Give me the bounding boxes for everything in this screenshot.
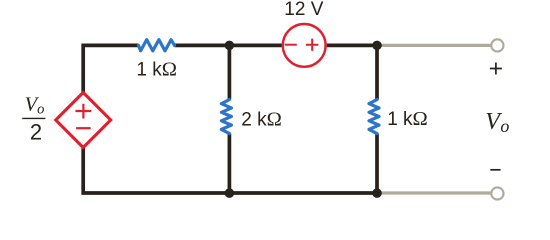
voltage source 12V circle — [283, 24, 326, 67]
junction node top-middle — [225, 41, 235, 51]
wire right vertical lower — [375, 134, 379, 193]
wire middle vertical lower — [228, 134, 232, 193]
svg-text:12 V: 12 V — [284, 0, 323, 20]
svg-text:2: 2 — [30, 120, 42, 145]
junction node bottom-middle — [225, 188, 235, 198]
12V source plus sign — [306, 39, 319, 51]
wire bottom-left corner run — [83, 147, 377, 193]
wire top-left corner run — [83, 45, 138, 93]
12V source minus sign — [285, 44, 297, 46]
junction node bottom-right — [372, 188, 382, 198]
svg-text:1 kΩ: 1 kΩ — [136, 58, 177, 80]
label - output — [490, 169, 500, 171]
svg-text:Vo: Vo — [25, 94, 45, 118]
junction node top-right — [372, 41, 382, 51]
svg-text:Vo: Vo — [485, 109, 509, 136]
terminal bottom — [491, 187, 503, 199]
svg-text:2 kΩ: 2 kΩ — [241, 108, 282, 130]
resistor R1 1 kOhm horizontal — [139, 40, 175, 51]
wire gray top to terminal — [377, 44, 492, 47]
terminal top — [491, 39, 503, 51]
dependent source minus sign — [76, 127, 91, 129]
dependent source plus sign — [75, 104, 91, 119]
svg-text:1 kΩ: 1 kΩ — [387, 108, 428, 130]
wire gray bottom to terminal — [377, 191, 492, 194]
wire top middle segment — [175, 44, 282, 48]
dependent source diamond — [56, 93, 111, 148]
fraction bar — [22, 117, 45, 119]
label + output — [490, 63, 502, 75]
resistor R2 2 kOhm vertical — [221, 100, 231, 134]
wire middle vertical upper — [228, 45, 232, 99]
wire right vertical upper — [375, 45, 379, 99]
resistor R3 1 kOhm vertical — [369, 100, 379, 134]
wire top right of source — [327, 44, 377, 48]
